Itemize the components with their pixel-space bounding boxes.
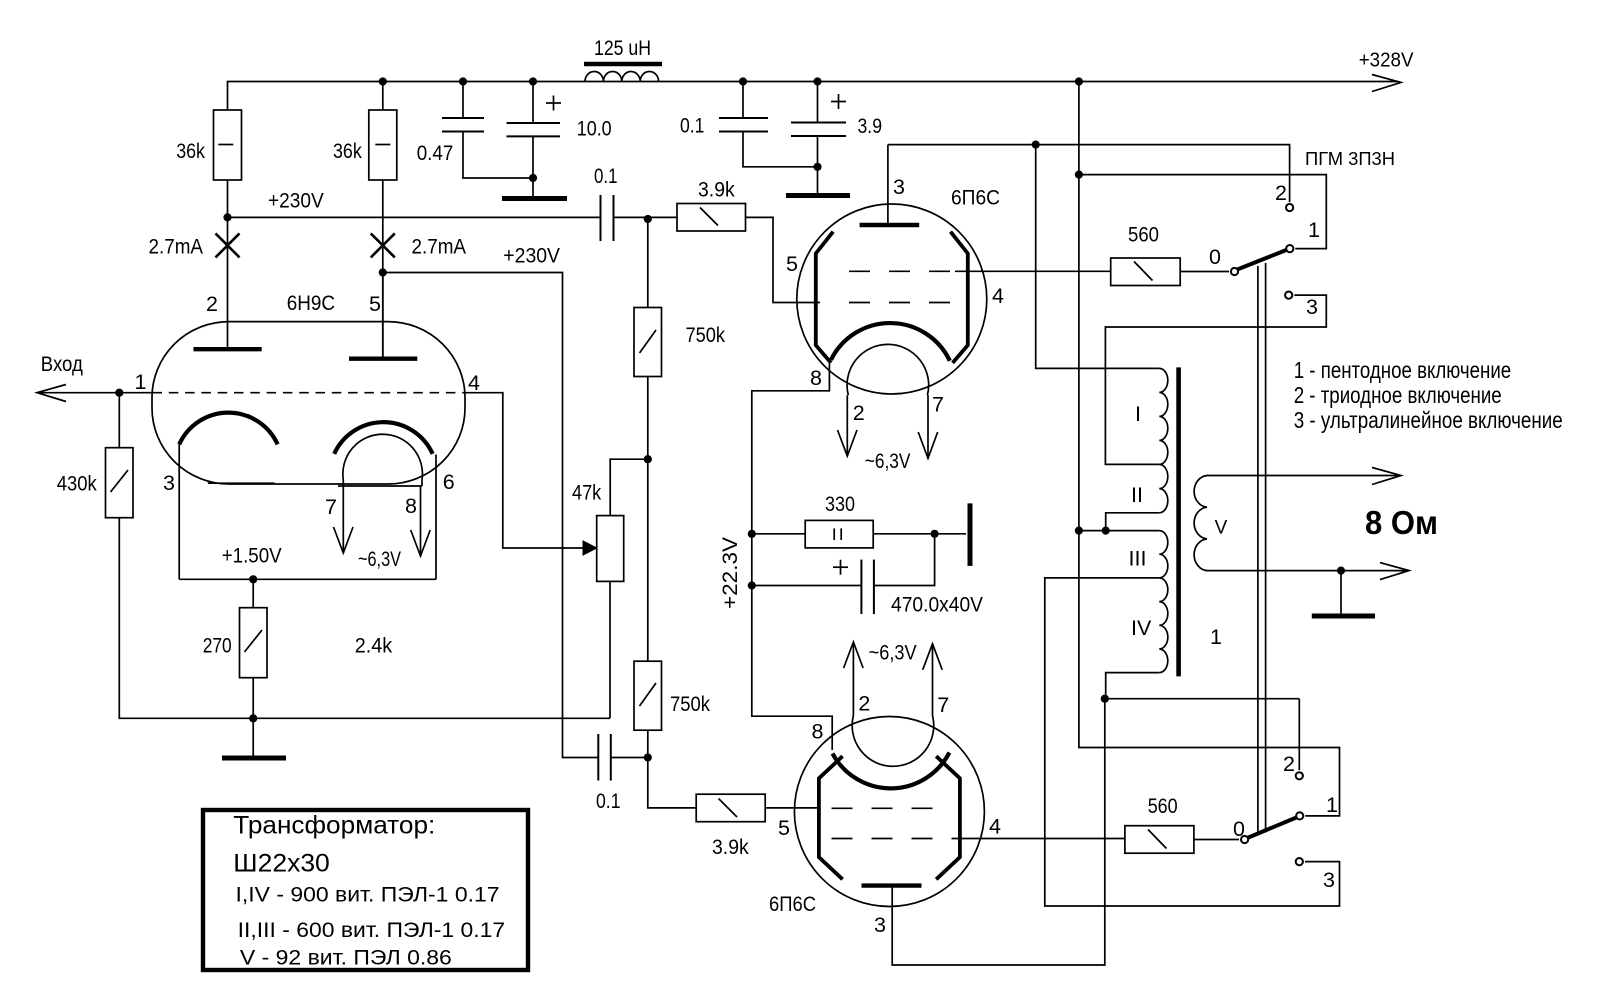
X marker 2.7mA right [371,233,395,257]
wire R3 to grid5 of top 6P6S [746,217,821,302]
screen grid dashes V2 [849,270,955,272]
svg-text:5: 5 [786,252,798,276]
output arrow bottom [1380,563,1409,580]
switch SW2 contact 2 [1296,772,1303,779]
filament bar triode B [338,485,422,487]
node center tap corner [1102,527,1110,535]
anode bar triode B pin5 [349,273,417,359]
svg-text:6П6С: 6П6С [951,186,1000,210]
svg-text:+22.3V: +22.3V [719,537,742,609]
filament horseshoe triode B [343,434,423,486]
node pot top / 750k chain [644,455,652,463]
switch SW2 contact 1 [1296,812,1303,819]
svg-text:6: 6 [443,470,455,494]
ground below C4 [786,193,850,198]
filament lead 2 V3 arrow [844,642,864,716]
ground symbol below 270 [222,718,286,758]
ground bar right of 330 [968,503,973,566]
svg-text:10.0: 10.0 [577,118,612,141]
svg-text:I,IV - 900 вит. ПЭЛ-1 0.17: I,IV - 900 вит. ПЭЛ-1 0.17 [236,884,500,907]
node 330 / cap right [931,530,939,538]
node bottom coupling [644,753,652,761]
wire pot bottom to ground bus corner [609,581,611,718]
ground below output [1312,571,1375,616]
wire anode V2 to switch contact 2 [888,145,1290,202]
screen grid dashes V3 [832,838,960,840]
svg-text:~6,3V: ~6,3V [869,642,917,665]
svg-text:II: II [1131,483,1143,507]
svg-text:8: 8 [810,366,822,390]
svg-text:560: 560 [1148,795,1178,818]
grid dashed line V1 [153,392,466,394]
svg-text:5: 5 [369,292,381,316]
svg-text:0.1: 0.1 [680,115,704,138]
svg-text:1: 1 [1308,218,1320,242]
pot wiper arrow [583,541,597,555]
wire contact 3 to UL tap I-II [1105,295,1326,464]
filament lead 7 V3 arrow [923,644,943,716]
wire 560 top to contact 0 [1180,271,1229,273]
node ground bus / 270 [249,714,257,722]
svg-text:2: 2 [853,401,865,425]
svg-text:36k: 36k [333,140,362,163]
node B+ center tap [1075,527,1083,535]
svg-text:3: 3 [1306,295,1318,319]
capacitor C4 3.9 electrolytic [791,82,846,194]
capacitor C3 0.1 [719,82,818,167]
svg-text:7: 7 [325,495,337,519]
svg-text:7: 7 [932,393,944,417]
svg-text:ПГМ 3П3Н: ПГМ 3П3Н [1305,148,1395,169]
output arrow top [1372,468,1401,485]
svg-text:1 - пентодное включение: 1 - пентодное включение [1294,357,1512,383]
svg-text:4: 4 [992,284,1004,308]
wire anode node to contact 2 [1105,698,1300,700]
wire primary I top feed [1036,145,1160,369]
resistor R4 750k upper body [634,219,662,377]
wire pentode branch to contact 1 top [1079,175,1326,249]
switch SW1 lever [1236,250,1288,271]
svg-text:III: III [1129,547,1147,571]
wire R2 down to anode pin 5 [382,180,384,359]
info box [203,810,528,970]
anode bar triode A pin2 [194,347,262,351]
svg-text:0: 0 [1233,817,1245,841]
winding III [1159,531,1168,578]
wire pin4 screen V3 to 560 lower [960,838,1125,840]
wire +328V top rail [228,82,1398,111]
svg-text:~6,3V: ~6,3V [865,450,911,473]
node top rail / C1 0.47 [459,77,467,85]
wire R4 to pot node [647,377,649,460]
node anode1 +230V bus [223,213,231,221]
tube V1 6N9S envelope [152,322,465,484]
switch SW2 contact 0 [1241,836,1248,843]
svg-text:560: 560 [1128,224,1159,247]
svg-text:3: 3 [893,175,905,199]
wire 430k to ground bus [119,518,610,719]
switch SW1 contact 3 [1285,292,1292,299]
node top rail / C3 0.1 [739,77,747,85]
control grid dashes V2 [849,302,950,304]
beam plate left V2 [816,232,833,363]
svg-text:430k: 430k [57,473,97,496]
resistor R1 36k body [214,110,242,180]
svg-text:1: 1 [1210,625,1222,649]
beam plate left V3 [819,756,843,879]
wire pin4 screen V2 to 560 [955,270,1111,272]
wire anode V3 to IV winding node [892,699,1105,965]
wire input to grid node [40,392,153,394]
svg-text:~6,3V: ~6,3V [358,548,401,571]
svg-text:3.9k: 3.9k [698,179,735,202]
svg-text:2: 2 [1283,752,1295,776]
svg-text:+1.50V: +1.50V [222,545,282,568]
control grid dashes V3 [832,807,938,809]
svg-text:36k: 36k [176,140,205,163]
svg-text:Вход: Вход [41,352,83,376]
svg-text:3: 3 [163,471,175,495]
switch SW1 contact 1 [1286,245,1293,252]
svg-text:750k: 750k [670,693,710,716]
resistor R6 270 body [240,579,268,677]
filament lead 7 V2 arrow [918,395,938,458]
svg-text:6П6С: 6П6С [769,892,816,916]
wire rail to R2 [382,82,384,111]
svg-text:0: 0 [1209,245,1221,269]
svg-text:270: 270 [203,635,232,658]
svg-text:2: 2 [206,292,218,316]
svg-text:8 Ом: 8 Ом [1365,504,1438,541]
wire cathode V2 pin8 to bias line [752,360,832,750]
wire 750k lower to bottom coupling node [647,730,649,757]
svg-text:+328V: +328V [1359,49,1414,71]
resistor R9 330 body [752,520,873,548]
resistor R8 3.9k lower body [648,758,765,822]
capacitor C2 10.0 electrolytic [507,82,561,197]
node C5 / R 3.9k / R 750k [644,215,652,223]
svg-text:Ш22х30: Ш22х30 [233,850,329,878]
svg-text:+230V: +230V [503,244,560,267]
svg-text:V - 92 вит. ПЭЛ 0.86: V - 92 вит. ПЭЛ 0.86 [240,947,452,970]
svg-text:8: 8 [812,720,824,744]
node bias top 330 [748,530,756,538]
filament horseshoe V3 [852,716,934,767]
svg-text:47k: 47k [572,482,602,505]
svg-text:II,III - 600 вит. ПЭЛ-1 0.17: II,III - 600 вит. ПЭЛ-1 0.17 [238,919,505,942]
beam plate right V3 [936,756,960,879]
svg-text:I: I [1135,402,1141,426]
inductor L1 core bar [584,62,662,66]
wire R1 to +230V node [227,180,229,217]
wire +230V bus to coupling cap [228,216,601,218]
wire cathode A down pin3 [178,444,180,579]
filament lead 2 V2 arrow [838,395,858,456]
capacitor C7 470.0x40V [752,534,935,614]
capacitor C5 0.1 coupling top [601,195,648,241]
winding II [1159,464,1168,512]
input arrow [37,385,66,402]
wire center tap to B+ line [1079,530,1106,532]
resistor R5 430k body [106,393,134,518]
filament bar triode A [208,482,275,484]
svg-text:4: 4 [989,815,1001,839]
winding I [1159,368,1168,464]
svg-text:1: 1 [1326,793,1338,817]
svg-text:2.4k: 2.4k [355,635,393,658]
wire 270 to ground bus [252,678,254,719]
svg-text:3.9: 3.9 [858,115,883,138]
svg-text:0.1: 0.1 [596,790,621,813]
wire anode2 +230V to bottom coupling cap [383,273,598,758]
svg-text:0.1: 0.1 [594,165,618,188]
svg-text:6Н9С: 6Н9С [287,291,335,315]
switch SW1 contact 0 [1231,268,1238,275]
X marker 2.7mA left [216,233,240,257]
svg-text:125 uH: 125 uH [594,37,651,60]
svg-text:3.9k: 3.9k [712,836,749,859]
plus sign C4 [831,94,846,109]
capacitor C1 0.47 [442,82,533,179]
node top rail / B+ down line [1075,77,1083,85]
ground below C2 [502,196,567,201]
wire anode1 down [227,217,229,349]
plus sign C2 [546,96,561,111]
svg-text:3: 3 [1323,868,1335,892]
wire B+ down line [1079,82,1340,816]
node bias bottom cap [748,581,756,589]
cathode arc V3 [833,753,950,789]
node cathode rail / 270 [249,575,257,583]
wire contact 2 bottom to anode node [1298,699,1300,770]
node IV bottom / anode V3 [1101,695,1109,703]
wire 330 right to ground bar [873,533,966,535]
svg-text:1: 1 [135,370,147,394]
wire cathode B down pin6 [435,455,437,580]
svg-text:5: 5 [778,816,790,840]
tube V3 6P6S bottom envelope [794,717,984,907]
secondary winding V [1194,476,1406,571]
svg-text:Трансформатор:: Трансформатор: [233,812,435,840]
resistor R11 560 bottom body [1125,826,1194,854]
switch SW1 contact 2 [1286,204,1293,211]
inductor L1 125 uH coil [585,71,659,81]
node output ground [1337,567,1345,575]
svg-text:3 - ультралинейное включение: 3 - ультралинейное включение [1294,407,1563,433]
winding IV [1159,578,1168,673]
wire pot top to 750k node [610,459,648,515]
cathode rail V1 [179,578,436,580]
svg-text:V: V [1215,518,1228,539]
cathode arc triode B [334,422,432,454]
wire R8 to grid5 bottom tube [765,807,820,809]
svg-text:4: 4 [468,371,480,395]
node top rail / C4 3.9 [813,77,821,85]
filament horseshoe V2 [847,344,929,395]
tube V2 6P6S top envelope [797,204,987,394]
resistor R2 36k body [369,110,397,180]
wire contact 3 bottom to UL tap III-IV [1045,578,1340,906]
node anode2 to coupling wire [379,268,387,276]
center tap II-III to B+ [1106,513,1160,531]
anode bar V2 pin3 [860,223,920,227]
switch SW2 contact 3 [1296,858,1303,865]
resistor R3 3.9k body [648,204,746,232]
node input / 430k [115,389,123,397]
svg-text:470.0x40V: 470.0x40V [891,594,983,617]
cathode arc triode A [179,413,277,445]
resistor R7 750k lower body [634,459,662,730]
plus sign C7 [833,560,848,575]
svg-text:0.47: 0.47 [417,142,454,165]
resistor R10 560 top body [1111,258,1181,286]
switch SW2 lever [1246,817,1298,839]
beam plate right V2 [951,232,968,363]
svg-text:+230V: +230V [268,190,324,213]
wire anode V2 up to triode-switch line [887,145,889,225]
mechanical link lines [1258,263,1266,836]
filament lead 7 with arrow [334,486,354,553]
svg-text:2: 2 [1275,181,1287,205]
node top rail / 36k R2 [379,77,387,85]
node anode line / primary top [1032,141,1040,149]
svg-text:2 - триодное включение: 2 - триодное включение [1294,382,1502,408]
svg-text:2.7mA: 2.7mA [149,236,204,259]
svg-text:7: 7 [937,693,949,717]
node C1/C2 bottom [529,174,537,182]
node top rail / C2 10.0 [529,77,537,85]
svg-text:2.7mA: 2.7mA [412,236,467,259]
capacitor C6 0.1 coupling bottom [598,734,648,781]
+328V arrow [1372,75,1401,92]
cathode arc V2 [831,323,950,361]
winding IV bottom hook [1106,673,1160,699]
anode bar V3 pin3 [862,883,922,887]
wire pin4 V1 to pot wiper [465,393,584,548]
transformer core bar [1176,367,1181,676]
node C3/C4 bottom [813,163,821,171]
node B+ / pentode top branch [1075,171,1083,179]
svg-text:3: 3 [874,913,886,937]
svg-text:750k: 750k [686,324,726,347]
wire 560 bottom to contact 0 [1194,839,1239,841]
svg-text:2: 2 [858,692,870,716]
filament lead 8 with arrow [411,486,431,556]
potentiometer 47k body [597,516,624,582]
svg-text:8: 8 [405,494,417,518]
svg-text:330: 330 [825,493,855,516]
svg-text:IV: IV [1131,616,1152,640]
